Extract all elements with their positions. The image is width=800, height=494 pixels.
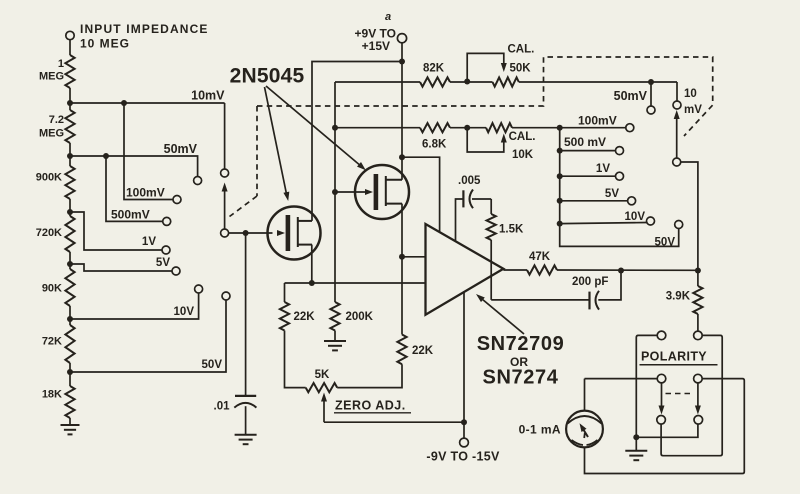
label 5V [156,257,170,269]
node [103,153,109,159]
label 5V [605,188,619,200]
node [557,221,563,227]
svg-text:0-1 mA: 0-1 mA [519,423,561,437]
svg-text:18K: 18K [42,389,62,401]
wire inv input (from Q1 source) [285,282,426,284]
label .01 [214,401,231,413]
wire S2 crossover [661,335,722,455]
node [557,173,563,179]
svg-text:50V: 50V [202,359,223,371]
label 50mV [164,142,198,156]
svg-text:10 MEG: 10 MEG [80,37,130,51]
resistor R5 90K [42,269,75,306]
svg-text:5V: 5V [156,257,170,269]
label 10K [512,149,534,161]
mech link (dashed) S2 [666,393,695,395]
svg-text:7.2: 7.2 [49,114,64,126]
node 3.9K junction [695,268,701,274]
svg-text:200 pF: 200 pF [572,276,608,288]
wiper R9 [467,53,507,81]
wire S2 pole a to meter [585,378,658,380]
label POLARITY [640,350,718,365]
wire ground to contact [636,424,698,437]
capacitor C2 .005 [463,190,473,209]
resistor R13 47K [527,265,557,274]
contact 500mV [163,217,171,225]
svg-text:a: a [385,11,391,23]
wire S1a pole to Q1 gate [229,232,273,234]
node junction 5V tap [67,261,73,267]
svg-text:6.8K: 6.8K [422,139,447,151]
label 5K [315,369,330,381]
label 22K [412,345,434,357]
svg-text:SN72709: SN72709 [477,333,565,355]
resistor R7 18K [42,386,75,418]
wire Q1 drain to +V rail [312,62,402,221]
svg-text:3.9K: 3.9K [666,291,691,303]
wire 10V out [560,223,647,224]
label 1V [142,236,156,248]
wire Q2 source down [401,204,403,257]
wire 500mV tap [106,156,163,221]
svg-text:50K: 50K [510,63,532,75]
wire [69,306,71,325]
node Q2 gate junction [332,189,338,195]
ground (input divider) [61,418,80,434]
contact 1V out [616,172,624,180]
label 100mV [126,186,165,200]
potentiometer R11 CAL 10K [486,123,512,132]
wire 100mV tap [124,103,173,200]
leader arrow to U1 [476,294,524,334]
resistor R16 200K [330,302,339,331]
svg-text:POLARITY: POLARITY [641,350,707,364]
wire [69,199,71,216]
node [121,100,127,106]
wire [69,363,71,386]
label 10 MEG [80,37,130,51]
svg-text:100mV: 100mV [126,186,165,200]
label OR [510,355,528,369]
contact 100mV [173,196,181,204]
node [464,79,470,85]
label 3.9K [666,291,691,303]
switch S2 pole a [657,374,666,383]
node [464,125,470,131]
wire [490,199,492,214]
svg-text:10: 10 [684,88,697,100]
wire Q2 drain up [401,157,403,180]
svg-text:50mV: 50mV [614,89,648,103]
switch S2 wiper a [659,383,665,415]
svg-text:1V: 1V [142,236,156,248]
label 200 pF [572,276,608,288]
svg-text:10K: 10K [512,149,534,161]
wire [450,127,486,129]
switch S2 contact [657,331,666,340]
label 50V [655,237,676,249]
resistor R8 82K [420,77,450,86]
svg-text:50mV: 50mV [164,142,198,156]
leader arrow to Q2 [266,86,366,170]
ground (S2) [625,437,647,460]
svg-text:72K: 72K [42,336,62,348]
node junction 10mV tap [67,100,73,106]
wire 5V out [560,200,628,202]
op-amp U1 [426,224,504,315]
label INPUT IMPEDANCE [80,22,209,36]
label SN72709 [477,333,565,355]
switch S2 pole b [694,374,703,383]
node 6.8K junction [332,125,338,131]
label -9V TO -15V [426,450,500,464]
wire Q1 source down [311,245,313,283]
label .005 [458,175,481,187]
transistor Q2 2N5045 [355,165,409,219]
wire [337,364,402,387]
svg-text:1: 1 [58,58,64,70]
svg-text:SN7274: SN7274 [483,367,559,389]
wiper R17 [321,393,327,423]
wire bus [560,128,679,247]
contact 1V [162,246,170,254]
mech link (dashed) S1a [230,106,258,217]
wire [335,81,420,83]
wire [676,82,678,101]
label 500 mV [564,135,606,149]
label mV [684,104,702,116]
label 6.8K [422,139,447,151]
wire to -V [324,421,464,423]
resistor R2 7.2 MEG [39,110,75,143]
wire output [503,269,527,271]
wire [697,314,699,331]
wire [284,283,286,302]
potentiometer R9 CAL 50K [493,77,519,86]
svg-text:CAL.: CAL. [508,44,535,56]
wire +V to op-amp V+ pin [402,157,440,232]
contact 10V out [647,217,655,225]
wire [69,143,71,166]
svg-text:100mV: 100mV [578,114,617,128]
resistor R1 1 MEG [39,55,75,88]
svg-text:5V: 5V [605,188,619,200]
svg-text:-9V TO -15V: -9V TO -15V [426,450,500,464]
svg-text:22K: 22K [412,345,434,357]
label 50K [510,63,532,75]
wire 500mV out [560,150,616,152]
ground (R16) [324,331,346,351]
svg-text:CAL.: CAL. [509,131,536,143]
wire [697,270,699,286]
node [557,198,563,204]
node -V junction [461,419,467,425]
node [557,148,563,154]
switch S1b pole [673,158,681,166]
svg-text:200K: 200K [346,311,374,323]
resistor R6 72K [42,325,75,363]
svg-text:720K: 720K [36,227,62,239]
wire output line [557,269,698,271]
wire comp to 200pF [491,299,589,301]
label 47K [529,251,551,263]
svg-text:47K: 47K [529,251,551,263]
label 10 [684,88,697,100]
wire 50mV feedback line [519,81,677,83]
svg-text:10V: 10V [625,211,646,223]
node junction 10V tap [67,316,73,322]
svg-text:500 mV: 500 mV [564,135,606,149]
switch S2 contact [694,416,703,425]
label 22K [294,311,316,323]
capacitor C3 200 pF [590,291,600,310]
wire [335,127,420,129]
contact 10V [195,285,203,293]
node junction 1V tap [67,209,73,215]
transistor Q1 2N5045 [268,207,321,260]
node 200pF junction [618,268,624,274]
svg-text:22K: 22K [294,311,316,323]
label CAL. [509,131,536,143]
label 10V [625,211,646,223]
node: input terminal [66,31,74,55]
wire 10V tap [70,293,199,319]
leader arrow to Q1 [265,87,290,201]
label 0-1 mA [519,423,561,437]
ground (C1) [235,435,257,444]
wire +V down [401,43,403,157]
resistor R4 720K [36,216,75,252]
wire 1V tap [70,212,162,250]
potentiometer R17 5K ZERO ADJ [306,383,338,392]
contact 50V [222,292,230,300]
wire 100mV feedback line [512,127,626,129]
label 50mV [614,89,648,103]
node 50mV out junction [648,79,654,85]
svg-text:MEG: MEG [39,128,64,140]
node +V opamp junction [399,154,405,160]
label 10V [174,306,195,318]
svg-text:MEG: MEG [39,71,64,83]
wire 1V out [560,175,616,177]
contact 50V out [675,221,683,229]
switch S2 contact [657,416,666,425]
node junction 50V tap [67,369,73,375]
resistor R3 900K [36,166,75,199]
label 1V [596,163,610,175]
wire [69,88,71,110]
wire 50mV tap [70,156,198,176]
switch S1b wiper arm [674,110,680,158]
wire 5V tap [70,264,172,271]
resistor R10 6.8K [420,123,450,132]
label 200K [346,311,374,323]
wiper R11 [467,128,507,152]
svg-text:1.5K: 1.5K [499,224,524,236]
switch S1a pole [221,229,229,237]
label 10mV [191,89,225,103]
wire 10mV tap [70,103,225,169]
wire S2 pole b to meter return [585,379,745,474]
wire comp pin [456,199,464,241]
wire [490,240,492,300]
contact 500mV out [616,147,624,155]
power terminal -9V TO -15V [460,422,469,447]
label SN7274 [483,367,559,389]
resistor R14 22K [397,335,406,365]
wire Q2 gate [335,191,370,193]
switch S2 wiper b [695,383,701,415]
wire 50V tap [70,300,226,372]
svg-text:INPUT IMPEDANCE: INPUT IMPEDANCE [80,22,209,36]
contact 50mV out [647,82,655,114]
capacitor C1 .01 [234,396,256,435]
label 100mV [578,114,617,128]
svg-text:5K: 5K [315,369,330,381]
svg-text:90K: 90K [42,283,62,295]
mech link (dashed) across [257,57,713,136]
switch S1a wiper arm [222,183,228,230]
svg-text:mV: mV [684,104,702,116]
label CAL. [508,44,535,56]
svg-text:900K: 900K [36,172,62,184]
resistor R12 1.5K [487,214,496,240]
svg-text:82K: 82K [423,63,445,75]
label 1.5K [499,224,524,236]
svg-text:2N5045: 2N5045 [230,65,305,88]
svg-text:.005: .005 [458,175,481,187]
switch S2 contact [694,331,703,340]
wire op-amp V- pin [463,292,465,422]
power terminal +9V TO +15V [397,34,406,43]
node gate/cap junction [243,230,249,236]
svg-text:10V: 10V [174,306,195,318]
wire S2 to ground [636,335,657,437]
wire S1b pole down [681,162,698,270]
node 100mV bus junction [557,125,563,131]
wire meter top [584,379,586,411]
label +15V [362,39,390,53]
meter M1 0-1 mA [566,411,603,448]
label ZERO ADJ. [334,399,411,413]
svg-text:1V: 1V [596,163,610,175]
wire non-inv input (from Q2 source) [402,256,426,258]
label 500mV [111,208,150,222]
wire feedback column [334,82,336,302]
wire [69,252,71,269]
wire [472,198,491,200]
node +V rail junction [399,59,405,65]
wire [598,271,621,300]
label 82K [423,63,445,75]
svg-text:ZERO ADJ.: ZERO ADJ. [335,399,406,413]
label 2N5045 [230,65,305,88]
switch S1a contact (10mV position) [221,169,229,177]
contact 5V out [628,197,636,205]
label 50V [202,359,223,371]
node ground junction [633,434,639,440]
svg-text:.01: .01 [214,401,231,413]
label +9V TO [355,27,396,41]
wire [450,81,493,83]
wire to C1 [245,233,247,396]
wire [285,331,306,388]
contact 10mV out [673,101,681,109]
resistor R18 3.9K [693,286,702,314]
svg-text:50V: 50V [655,237,676,249]
contact 50mV [194,177,202,185]
node junction 50mV tap [67,153,73,159]
node Q1 source junction [309,280,315,286]
contact 5V [172,267,180,275]
svg-text:10mV: 10mV [191,89,225,103]
label a (note) [385,11,391,23]
node [399,254,405,260]
svg-text:+15V: +15V [362,39,390,53]
svg-text:500mV: 500mV [111,208,150,222]
resistor R15 22K [280,302,289,331]
contact 100mV out [626,124,634,132]
wire Q2 source to R14 [401,257,403,335]
